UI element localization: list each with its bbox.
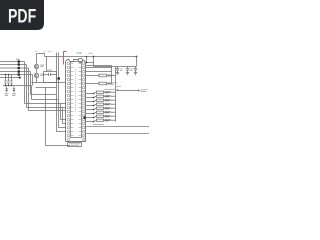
IC U1 body [71, 62, 82, 138]
node rail dot 1 [5, 85, 7, 87]
wire J1 bus corner 1 [20, 62, 66, 104]
node cap top dot 1 [5, 74, 7, 76]
node rail junction C [86, 56, 88, 58]
connector J1 pin 1 [18, 60, 20, 62]
connector J1 pin 2 [18, 63, 20, 65]
socket U1 pin1 bump [78, 58, 82, 62]
connector J1 pin 5 [18, 73, 20, 75]
capacitor C6 label [120, 69, 123, 70]
capacitor C7 label [130, 69, 133, 70]
wire signal out [117, 90, 140, 91]
capacitor C3 [10, 75, 12, 86]
resistor R10 label [108, 83, 118, 84]
diode D1 [6, 86, 8, 93]
resistor R9 [86, 75, 99, 77]
capacitor C5 label [47, 69, 52, 71]
text label TP [89, 52, 93, 54]
wire long vertical bus 2 [59, 53, 66, 128]
wire long vertical bus 1 [57, 53, 66, 132]
resistor R7 [86, 116, 97, 117]
node rail junction B [136, 56, 138, 58]
box socket label [68, 143, 82, 147]
wire bottom-left feed [46, 88, 71, 146]
node branch dot [86, 62, 88, 64]
node rail junction A [93, 56, 95, 58]
resistor R8 [86, 120, 97, 121]
resistor R5 [86, 108, 97, 109]
capacitor C7 [126, 67, 129, 75]
transistor Q1 label [40, 65, 44, 66]
node rail dot 2 [8, 85, 10, 87]
wire Q1-Q2 link [36, 69, 38, 83]
wire red supply [64, 52, 67, 65]
resistor R9 label [108, 75, 113, 76]
wire J1 bus corner 2 [20, 65, 66, 108]
box sub-circuit [44, 72, 57, 83]
capacitor C8 [134, 67, 137, 75]
transistor Q2 label [40, 74, 44, 75]
pin dark pad [57, 77, 60, 79]
wire right rows [86, 68, 112, 72]
connector J1 label [16, 58, 20, 60]
resistor R1 [86, 92, 97, 93]
transistor Q1 [34, 64, 38, 68]
wire socket feed corner 5 [61, 104, 66, 120]
connector J1 pin 4 [18, 70, 20, 72]
wire right L bus outer [94, 57, 116, 122]
wire bus lower 2 [86, 133, 150, 135]
wire socket feed corner 6 [63, 108, 66, 124]
capacitor C5 [44, 73, 57, 76]
wire box bottom line 1 [32, 82, 66, 84]
socket U1 outline [66, 60, 79, 142]
node cap top dot 2 [8, 74, 10, 76]
capacitor C6 [116, 67, 119, 75]
diode D1 label [5, 94, 9, 96]
resistor R6 [86, 112, 97, 113]
diode D2 [13, 86, 15, 93]
svg-text:PDF: PDF [8, 6, 36, 28]
resistor R4 [86, 104, 97, 105]
wire bus lower 1 [86, 126, 150, 128]
wire J1 bus corner 4 [20, 72, 57, 95]
connector J1 pin 6 mark [19, 77, 21, 79]
wire box bottom line 2 [36, 87, 57, 89]
wire top rail [45, 56, 137, 58]
text stack footer [93, 123, 104, 125]
socket U1 label 17 [77, 52, 81, 54]
pin dark pad right [83, 116, 86, 118]
socket U1 left pin holes [67, 62, 70, 141]
capacitor C2 [7, 75, 9, 86]
resistor R3 [86, 100, 97, 101]
socket U1 outline right [66, 60, 86, 142]
node rail dot 3 [11, 85, 13, 87]
wire top-right branch [87, 57, 94, 63]
text signal label small [116, 85, 121, 87]
PDF badge [0, 0, 44, 30]
socket U1 right pin holes [82, 62, 85, 141]
wire right L bus inner [86, 66, 112, 84]
IC U1 vertical text [75, 69, 77, 113]
text stack header [104, 88, 118, 90]
wire caps rail [116, 57, 137, 67]
diode D2 label [12, 94, 16, 96]
text signal name [141, 90, 148, 92]
wire J1 bus corner 5 [20, 75, 33, 86]
IC U1 pin stubs [71, 64, 81, 136]
resistor R10 [86, 83, 99, 85]
socket label text [69, 144, 80, 145]
capacitor C1 [4, 75, 6, 86]
wire J1 bus corner 3 [20, 68, 66, 111]
transistor Q2 [34, 73, 38, 77]
connector J1 pin 3 [18, 67, 20, 69]
text annotation above bracket [35, 50, 52, 53]
wire top-left bracket [37, 54, 47, 72]
connector J1 leads [0, 62, 20, 78]
wire ground rail [3, 86, 59, 100]
resistor R2 [86, 96, 97, 97]
